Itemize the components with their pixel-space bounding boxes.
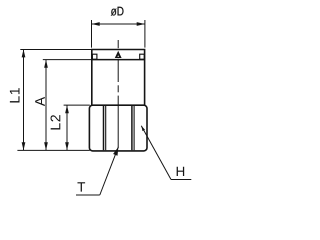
fitting body (tube)	[92, 50, 145, 106]
label H	[177, 167, 185, 176]
extension line L2 top	[64, 104, 90, 106]
insertion triangle notch	[117, 55, 119, 57]
hex nut outline	[89, 105, 147, 151]
extension line oD right	[144, 20, 146, 48]
hex facet line right thin	[133, 106, 135, 150]
arrowhead L1 bottom	[22, 142, 26, 150]
collet square left	[92, 54, 97, 59]
extension line oD left	[91, 20, 93, 48]
arrowhead A bottom	[44, 142, 48, 150]
arrowhead L2 bottom	[65, 142, 69, 150]
insertion triangle	[115, 51, 122, 58]
arrowhead L2 top	[65, 105, 69, 113]
underline H	[171, 179, 191, 181]
arrowhead T	[113, 147, 118, 156]
label L1	[10, 88, 20, 102]
cap line	[92, 59, 145, 61]
leader T	[100, 147, 119, 195]
arrowhead A top	[44, 60, 48, 68]
leader H	[141, 126, 171, 180]
label oD	[111, 7, 124, 16]
dimension line oD	[92, 23, 145, 25]
extension line A top	[43, 59, 92, 61]
arrowhead oD left	[92, 22, 100, 26]
label T	[77, 182, 85, 191]
arrowhead L1 top	[22, 49, 26, 57]
collet square right	[140, 54, 145, 59]
centerline	[117, 40, 119, 148]
underline T	[76, 194, 100, 196]
hex facet line left thin	[105, 106, 107, 150]
label L2	[51, 115, 61, 129]
extension line L1 top	[20, 49, 92, 51]
dimension line L1	[23, 50, 25, 151]
dimension line A	[45, 60, 47, 151]
hex facet line left thick	[103, 106, 105, 150]
dimension line L2	[66, 105, 68, 150]
arrowhead oD right	[137, 22, 145, 26]
extension line bottom	[17, 149, 89, 151]
arrowhead H	[141, 126, 145, 131]
label A	[35, 97, 45, 106]
hex facet line right thick	[131, 106, 133, 150]
